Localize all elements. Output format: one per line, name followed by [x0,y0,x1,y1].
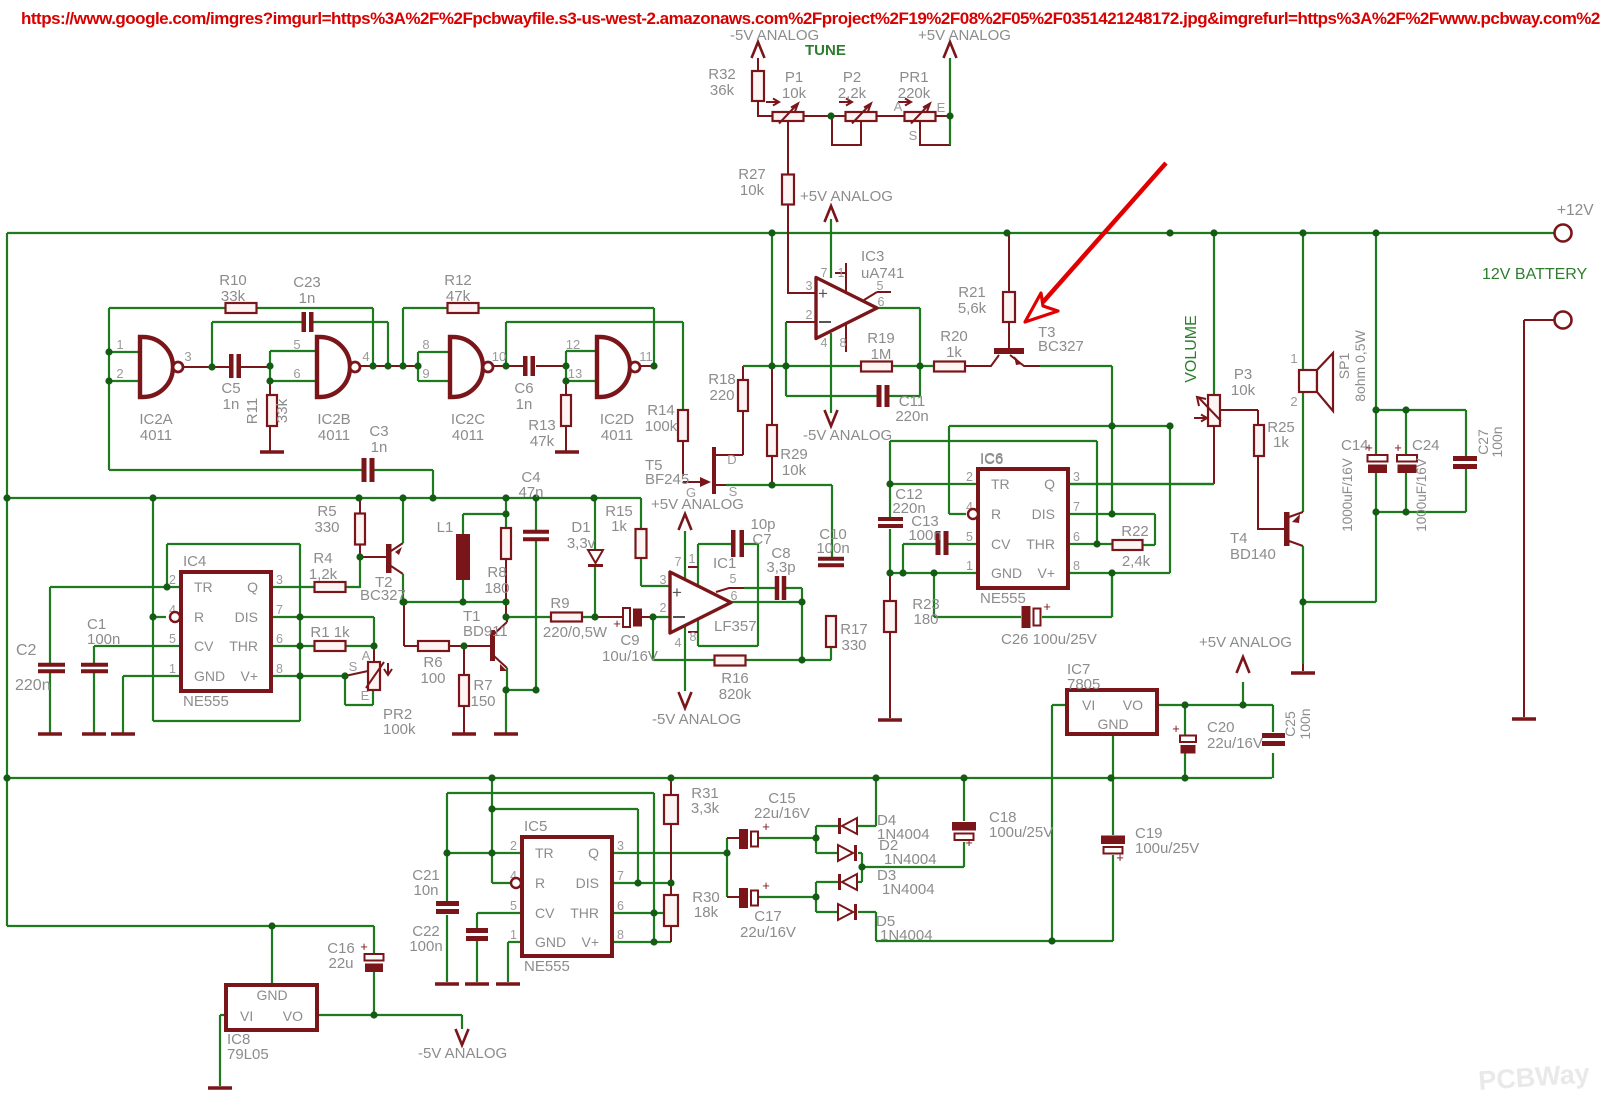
svg-text:DIS: DIS [1032,506,1055,522]
svg-text:7805: 7805 [1067,676,1100,693]
svg-text:2: 2 [169,573,176,587]
svg-text:1: 1 [966,559,973,573]
svg-text:2,4k: 2,4k [1122,553,1151,570]
svg-text:R20: R20 [940,328,968,345]
svg-text:+: + [762,819,770,834]
svg-text:CV: CV [194,638,214,654]
svg-text:V+: V+ [1037,565,1055,581]
svg-text:TR: TR [991,476,1010,492]
svg-text:C9: C9 [620,632,639,649]
svg-text:S: S [909,128,918,143]
svg-text:11: 11 [639,349,653,364]
svg-text:DIS: DIS [235,609,258,625]
svg-text:IC4: IC4 [183,553,206,570]
svg-text:7: 7 [617,869,624,883]
svg-text:3: 3 [617,839,624,853]
svg-text:180: 180 [484,580,509,597]
svg-text:10k: 10k [1231,382,1256,399]
svg-text:R18: R18 [708,371,736,388]
svg-text:R21: R21 [958,284,986,301]
svg-text:R: R [535,875,545,891]
svg-text:IC2C: IC2C [451,411,485,428]
svg-text:4011: 4011 [318,427,350,444]
svg-text:IC2B: IC2B [317,411,350,428]
svg-text:R22: R22 [1121,523,1149,540]
svg-text:6: 6 [617,899,624,913]
svg-text:R19: R19 [867,330,895,347]
svg-text:22u: 22u [328,955,353,972]
svg-text:VI: VI [1082,697,1095,713]
svg-text:+12V: +12V [1557,202,1594,219]
svg-text:47n: 47n [518,484,543,501]
svg-text:33k: 33k [221,288,246,305]
svg-text:R16: R16 [721,670,749,687]
svg-text:NE555: NE555 [980,590,1026,607]
svg-text:+5V ANALOG: +5V ANALOG [800,188,893,205]
svg-text:4: 4 [675,636,682,650]
svg-text:VO: VO [1123,697,1143,713]
svg-text:+: + [613,616,621,631]
svg-text:D: D [727,452,736,467]
svg-text:R12: R12 [444,272,472,289]
svg-text:5: 5 [877,279,884,293]
svg-text:C2: C2 [16,642,37,659]
svg-text:4011: 4011 [452,427,484,444]
svg-text:+5V ANALOG: +5V ANALOG [1199,634,1292,651]
svg-text:3: 3 [1073,470,1080,484]
svg-text:THR: THR [229,638,258,654]
svg-text:TR: TR [194,579,213,595]
svg-text:GND: GND [991,565,1022,581]
svg-text:1000uF/16V: 1000uF/16V [1340,458,1355,532]
svg-text:3: 3 [806,279,813,293]
svg-text:Q: Q [588,845,599,861]
svg-text:8: 8 [617,928,624,942]
svg-text:8: 8 [1073,559,1080,573]
svg-text:5,6k: 5,6k [958,300,987,317]
svg-text:E: E [361,688,370,703]
svg-text:R1 1k: R1 1k [310,624,350,641]
svg-text:+: + [818,284,828,303]
svg-text:R4: R4 [313,550,332,567]
svg-text:S: S [729,484,738,499]
svg-text:IC6: IC6 [980,451,1003,468]
svg-text:NE555: NE555 [183,693,229,710]
svg-text:R8: R8 [487,564,506,581]
svg-text:R5: R5 [317,503,336,520]
svg-text:6: 6 [293,366,300,381]
svg-text:+: + [965,835,973,850]
svg-text:R: R [991,506,1001,522]
svg-text:18k: 18k [694,904,719,921]
svg-text:100: 100 [420,670,445,687]
svg-text:BD911: BD911 [463,623,508,640]
svg-text:2: 2 [660,601,667,615]
svg-text:150: 150 [470,693,495,710]
svg-text:2: 2 [116,366,123,381]
svg-text:330: 330 [841,637,866,654]
svg-text:1n: 1n [223,396,240,413]
svg-text:1: 1 [689,552,696,566]
svg-text:C5: C5 [221,380,240,397]
svg-text:8: 8 [840,336,847,350]
svg-text:1n: 1n [371,439,388,456]
svg-text:1N4004: 1N4004 [882,881,935,898]
svg-text:P1: P1 [785,69,803,86]
svg-text:10u/16V: 10u/16V [602,648,658,665]
svg-text:100k: 100k [645,418,678,435]
svg-text:https://www.google.com/imgres?: https://www.google.com/imgres?imgurl=htt… [21,9,1600,28]
svg-text:GND: GND [535,934,566,950]
svg-text:R: R [194,609,204,625]
svg-text:7: 7 [675,555,682,569]
svg-text:P2: P2 [843,69,861,86]
svg-text:100u/25V: 100u/25V [989,824,1053,841]
svg-text:8: 8 [690,630,697,644]
svg-text:47k: 47k [530,433,555,450]
svg-text:C17: C17 [754,908,782,925]
svg-text:C24: C24 [1412,437,1440,454]
svg-text:2,2k: 2,2k [838,85,867,102]
svg-text:R9: R9 [550,595,569,612]
svg-text:1k: 1k [611,518,627,535]
svg-text:BC327: BC327 [1038,338,1084,355]
svg-text:IC1: IC1 [713,555,736,572]
svg-text:8: 8 [422,337,429,352]
svg-text:1N4004: 1N4004 [880,927,933,944]
svg-text:R17: R17 [840,621,868,638]
svg-text:+: + [1394,440,1402,455]
svg-text:BF245: BF245 [645,471,689,488]
svg-text:V+: V+ [240,668,258,684]
svg-text:CV: CV [991,536,1011,552]
svg-text:220/0,5W: 220/0,5W [543,624,608,641]
svg-text:33k: 33k [274,398,291,423]
svg-text:P3: P3 [1234,366,1252,383]
svg-text:TUNE: TUNE [805,42,846,59]
svg-text:3,3k: 3,3k [691,800,720,817]
svg-text:E: E [937,100,946,115]
svg-text:R29: R29 [780,446,808,463]
svg-text:1k: 1k [1273,434,1289,451]
svg-text:220: 220 [709,387,734,404]
svg-text:C20: C20 [1207,719,1235,736]
svg-text:10k: 10k [740,182,765,199]
svg-text:R32: R32 [708,66,736,83]
svg-text:1n: 1n [516,396,533,413]
svg-text:1,2k: 1,2k [309,566,338,583]
svg-text:PR1: PR1 [899,69,928,86]
svg-text:A: A [362,648,371,663]
svg-text:+: + [1365,440,1373,455]
svg-text:IC2A: IC2A [139,411,172,428]
svg-text:10k: 10k [782,85,807,102]
svg-text:100n: 100n [1489,426,1505,457]
svg-text:5: 5 [966,530,973,544]
svg-text:-5V ANALOG: -5V ANALOG [652,711,741,728]
svg-text:IC2D: IC2D [600,411,634,428]
svg-text:12V BATTERY: 12V BATTERY [1482,266,1588,283]
svg-text:7: 7 [821,266,828,280]
svg-text:180: 180 [913,611,938,628]
svg-text:79L05: 79L05 [227,1046,269,1063]
svg-text:R27: R27 [738,166,766,183]
svg-text:+: + [1116,850,1124,865]
svg-text:C7: C7 [752,531,771,548]
svg-text:100n: 100n [908,527,941,544]
svg-text:9: 9 [422,366,429,381]
svg-text:1k: 1k [946,344,962,361]
svg-text:Q: Q [247,579,258,595]
svg-text:4: 4 [362,349,369,364]
svg-text:IC5: IC5 [524,818,547,835]
svg-text:7: 7 [276,603,283,617]
svg-text:BC327: BC327 [360,587,406,604]
svg-text:6: 6 [878,295,885,309]
svg-text:C25: C25 [1282,711,1298,737]
svg-text:1: 1 [510,928,517,942]
svg-text:GND: GND [256,987,287,1003]
svg-text:4011: 4011 [601,427,633,444]
svg-text:TR: TR [535,845,554,861]
svg-text:NE555: NE555 [524,958,570,975]
svg-text:3: 3 [660,573,667,587]
svg-text:1: 1 [1290,351,1297,366]
svg-text:C23: C23 [293,274,321,291]
svg-text:4011: 4011 [140,427,172,444]
svg-text:100n: 100n [816,540,849,557]
svg-text:47k: 47k [446,288,471,305]
svg-text:12: 12 [566,337,580,352]
svg-text:+: + [762,878,770,893]
svg-text:C3: C3 [369,423,388,440]
svg-text:100n: 100n [409,938,442,955]
svg-text:220n: 220n [895,408,928,425]
svg-text:2: 2 [1290,394,1297,409]
svg-text:CV: CV [535,905,555,921]
svg-text:R11: R11 [244,398,261,424]
svg-text:1n: 1n [299,290,316,307]
svg-text:-5V ANALOG: -5V ANALOG [418,1045,507,1062]
svg-text:2: 2 [510,839,517,853]
svg-text:+5V ANALOG: +5V ANALOG [918,27,1011,44]
svg-text:G: G [686,485,696,500]
svg-text:R10: R10 [219,272,247,289]
svg-text:36k: 36k [710,82,735,99]
svg-text:2: 2 [806,308,813,322]
svg-text:3: 3 [276,573,283,587]
svg-text:Q: Q [1044,476,1055,492]
svg-text:1: 1 [838,266,845,280]
svg-text:C26 100u/25V: C26 100u/25V [1001,631,1097,648]
svg-text:V+: V+ [581,934,599,950]
svg-text:1: 1 [169,662,176,676]
svg-text:VOLUME: VOLUME [1183,315,1200,383]
svg-text:5: 5 [169,632,176,646]
svg-text:-5V ANALOG: -5V ANALOG [803,427,892,444]
svg-text:SP1: SP1 [1336,353,1352,380]
svg-text:820k: 820k [719,686,752,703]
svg-text:100n: 100n [1297,708,1313,739]
svg-text:IC3: IC3 [861,248,884,265]
svg-text:22u/16V: 22u/16V [1207,735,1263,752]
svg-text:3,3v: 3,3v [567,535,596,552]
svg-text:5: 5 [730,572,737,586]
svg-text:100n: 100n [87,631,120,648]
svg-text:4: 4 [821,336,828,350]
svg-text:22u/16V: 22u/16V [740,924,796,941]
svg-text:1M: 1M [871,346,892,363]
svg-text:1000uF/16V: 1000uF/16V [1414,458,1429,532]
svg-text:GND: GND [194,668,225,684]
svg-text:VO: VO [283,1008,303,1024]
svg-text:10k: 10k [782,462,807,479]
svg-text:8: 8 [276,662,283,676]
svg-text:C6: C6 [514,380,533,397]
svg-text:100k: 100k [383,721,416,738]
svg-text:+: + [1172,721,1180,736]
svg-text:220n: 220n [15,677,51,694]
svg-text:330: 330 [314,519,339,536]
svg-text:3,3p: 3,3p [766,559,795,576]
svg-text:D1: D1 [571,519,590,536]
svg-text:1: 1 [116,337,123,352]
svg-text:2: 2 [966,470,973,484]
svg-text:A: A [894,99,903,114]
svg-text:LF357: LF357 [714,618,757,635]
svg-text:13: 13 [568,366,582,381]
svg-text:8ohm 0,5W: 8ohm 0,5W [1352,329,1368,401]
svg-text:6: 6 [731,589,738,603]
svg-text:THR: THR [570,905,599,921]
svg-text:10n: 10n [413,882,438,899]
svg-text:10: 10 [492,349,506,364]
svg-text:7: 7 [1073,500,1080,514]
svg-text:VI: VI [240,1008,253,1024]
svg-text:R14: R14 [647,402,675,419]
svg-text:+: + [672,583,682,602]
svg-text:R6: R6 [423,654,442,671]
svg-text:1N4004: 1N4004 [884,851,937,868]
svg-text:DIS: DIS [576,875,599,891]
svg-text:6: 6 [1073,530,1080,544]
svg-text:BD140: BD140 [1230,546,1276,563]
svg-text:THR: THR [1026,536,1055,552]
svg-text:T4: T4 [1230,530,1248,547]
svg-text:5: 5 [293,337,300,352]
svg-text:220k: 220k [898,85,931,102]
svg-text:S: S [349,659,358,674]
svg-text:R13: R13 [528,417,556,434]
svg-text:+: + [1043,599,1051,614]
svg-text:R7: R7 [473,677,492,694]
svg-text:+: + [360,939,368,954]
svg-text:L1: L1 [437,519,454,536]
svg-text:GND: GND [1097,716,1128,732]
svg-text:100u/25V: 100u/25V [1135,840,1199,857]
svg-text:5: 5 [510,899,517,913]
svg-text:6: 6 [276,632,283,646]
svg-text:3: 3 [184,349,191,364]
